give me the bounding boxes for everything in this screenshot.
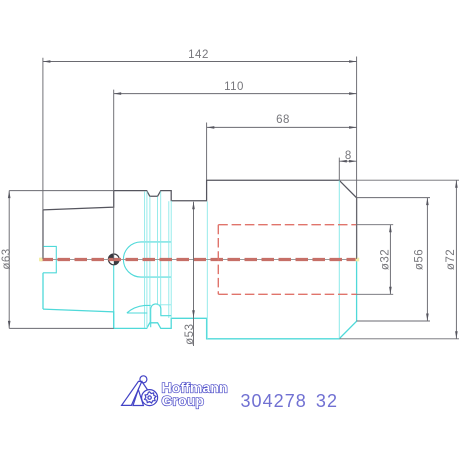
centerline red dashes [41,258,357,261]
arrow dia56 bottom [426,314,429,322]
hidden bore bottom line [218,293,356,295]
dimension texts [1,49,457,345]
Hoffmann Group logo text [162,380,228,409]
wing chord line [127,312,147,314]
arrow dia53 top [192,202,195,210]
icon gear outer [142,390,158,406]
arrow dia32 top [389,225,392,233]
taper end face lower edge [42,273,44,309]
Hoffmann Group logo icon [122,376,158,406]
svg-text:68: 68 [276,114,290,126]
svg-text:142: 142 [188,49,209,61]
groove edge line x=168.8 [168,201,170,318]
dia32 bottom extension [357,293,394,295]
dia72 top extension [339,179,459,181]
lower outline of tool holder (section half, cyan) [43,260,357,339]
dia72 bottom extension [339,338,459,340]
part number text [241,391,339,411]
centerline endpoint marker right [356,258,360,262]
dia56 dimension line [426,198,428,321]
svg-text:304278 32: 304278 32 [241,391,339,411]
groove edge line x=157.5 [157,197,159,305]
dia53 dimension line [193,202,195,346]
dia63 dimension line [8,191,10,329]
shelf line y=304.8 [158,304,172,306]
groove edge line x=160.7 [160,191,162,315]
dimension 142 line [9,57,459,347]
arrow dia72 top [455,180,458,188]
dia32 dimension line [389,225,391,295]
svg-text:ø32: ø32 [380,249,392,270]
svg-text:ø63: ø63 [1,248,13,269]
svg-text:8: 8 [345,150,352,162]
arrow dia32 bottom [389,287,392,295]
arrow 68 left [207,126,215,129]
arrow 142 left [43,60,51,63]
flange face lower section edge [113,260,115,329]
arrow dia63 bottom [8,321,11,329]
arrow 110 left [114,92,122,95]
arrowheads [8,60,458,339]
upper outline of tool holder body (view half) [43,180,357,259]
dimension 68 extension [206,123,208,181]
arch detail lower flange [151,304,172,327]
icon gear hub [148,396,151,399]
dia32 top extension [357,224,394,226]
arrow 110 right [349,92,357,95]
drawbar bore rectangle at taper end [43,246,56,272]
svg-text:Group: Group [162,393,205,409]
arrow 8 left [339,160,347,163]
wing detail left lower flange [127,305,151,313]
dimension 68 line [207,126,357,128]
icon gear teeth [145,392,156,403]
dimension 142 left extension [42,58,44,259]
chamfer tangent edge at x=339.3 [338,180,340,339]
hidden bore top line [218,224,356,226]
taper end face upper edge [42,210,44,260]
groove edge line x=144.6 [144,191,146,328]
arrow 8 right [349,160,357,163]
body face lower section edge [206,202,208,339]
right common extension line [356,57,358,260]
svg-text:ø53: ø53 [184,324,196,345]
dia63 bottom extension [9,327,114,329]
dia56 bottom extension [357,320,430,322]
icon arm line [142,381,148,389]
dia56 top extension [357,197,430,199]
icon head circle [140,376,147,383]
dimension 8 line [339,160,356,162]
dia72 dimension line [455,180,457,339]
groove edge line x=149.9 [149,197,151,323]
dimension 110 line [114,93,357,95]
hidden bore end face line [217,225,219,295]
groove edge line x=146.9 [146,191,148,328]
dimension 110 extension [113,90,115,260]
centerline gray base [40,259,357,261]
svg-text:ø72: ø72 [445,249,457,270]
arrow dia56 top [426,198,429,206]
arrow dia72 bottom [455,331,458,339]
drive slot stadium at gauge plane [123,242,171,277]
step edge line x=171.2 lower [170,201,172,319]
icon inner triangle [133,389,143,405]
arrow dia53 bottom [192,310,195,318]
dia63 top extension [9,190,114,192]
datum symbol circle at gauge plane [108,254,119,265]
arrow 68 right [349,126,357,129]
centerline endpoint marker left [39,258,43,262]
svg-text:ø56: ø56 [413,249,425,270]
svg-text:110: 110 [224,81,244,93]
icon body triangle [122,381,142,405]
arrow 142 right [349,60,357,63]
arrow dia63 top [8,191,11,199]
dimension 8 left extension [338,158,340,180]
